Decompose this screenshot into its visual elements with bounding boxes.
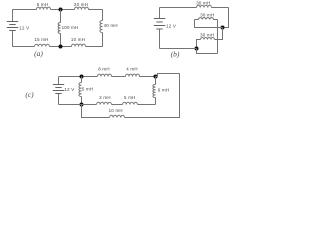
circuit (b) wires [154, 5, 229, 53]
svg-text:20 mH: 20 mH [74, 2, 88, 7]
inductor L11 4mH [126, 74, 140, 76]
svg-text:(a): (a) [34, 49, 43, 58]
node M junction [221, 26, 225, 30]
circuit (c) labels [25, 67, 169, 114]
inductor L4 10mH [72, 44, 86, 46]
svg-text:12 V: 12 V [166, 23, 176, 28]
wire right edge and bottom rail [125, 74, 180, 118]
svg-text:12 V: 12 V [19, 25, 29, 30]
inductor L10 8mH [98, 74, 112, 76]
wire loop1 coil leads [195, 19, 218, 21]
battery V2 leads [159, 8, 161, 49]
svg-text:40 mH: 40 mH [104, 23, 118, 28]
wire node M to loop2 [215, 28, 223, 40]
inductor L16 10mH [110, 115, 125, 117]
circuit (b) labels [166, 0, 214, 58]
svg-text:30 mH: 30 mH [200, 12, 214, 17]
inductor L12 5mH vertical [81, 77, 83, 105]
wire shorting bar [195, 20, 223, 28]
wire U detour [197, 49, 218, 54]
wire loop2 left side [197, 40, 201, 49]
inductor L2 20mH [75, 7, 89, 9]
node top-left junction [80, 75, 84, 79]
wire bottom rail [13, 46, 103, 48]
node top-right junction [154, 75, 158, 79]
svg-text:2 mH: 2 mH [99, 95, 111, 100]
circuit (a) wires [7, 7, 103, 48]
node bottom junction [195, 47, 199, 51]
battery V3 plates [53, 84, 64, 86]
svg-text:10 mH: 10 mH [71, 37, 85, 42]
svg-text:5 mH: 5 mH [37, 2, 49, 7]
svg-text:5 mH: 5 mH [124, 95, 136, 100]
wire middle branch [60, 10, 62, 47]
wire top rail [13, 9, 103, 11]
wire bottom rail [160, 48, 197, 50]
svg-text:30 mH: 30 mH [196, 0, 210, 5]
svg-text:5 mH: 5 mH [82, 87, 94, 92]
svg-text:8 mH: 8 mH [98, 67, 110, 72]
svg-text:15 mH: 15 mH [34, 37, 48, 42]
wire middle rail [59, 104, 156, 106]
wire top rail [160, 7, 229, 9]
battery V2 plates [154, 18, 165, 20]
inductor L5 100mH vertical [58, 23, 60, 34]
svg-text:(b): (b) [171, 50, 180, 59]
svg-text:10 mH: 10 mH [109, 108, 123, 113]
inductor L8 30mH middle [199, 18, 214, 20]
svg-text:(c): (c) [25, 90, 34, 99]
wire right edge [102, 10, 104, 47]
battery V3 leads [58, 77, 60, 105]
battery V1 leads [12, 10, 14, 47]
node middle-left junction [80, 103, 84, 107]
wire top rail [59, 76, 156, 78]
node top junction [59, 8, 63, 12]
svg-text:6 mH: 6 mH [158, 87, 170, 92]
svg-text:100 mH: 100 mH [62, 25, 79, 30]
inductor L15 6mH vertical [155, 77, 157, 105]
node bottom junction [59, 45, 63, 49]
inductor L13 2mH [97, 102, 112, 104]
wire crossing vertical [217, 20, 219, 54]
inductor L3 15mH [35, 44, 50, 46]
circuit (a) labels [19, 2, 117, 58]
wire bottom rail left [82, 105, 110, 118]
circuit (c) wires [53, 74, 180, 118]
wire right edge [223, 8, 229, 28]
battery V1 plates [7, 21, 18, 23]
svg-text:30 mH: 30 mH [200, 33, 214, 38]
svg-text:12 V: 12 V [64, 87, 74, 92]
inductor L14 5mH [123, 102, 138, 104]
inductor L7 30mH top [197, 5, 212, 7]
svg-text:4 mH: 4 mH [126, 67, 138, 72]
inductor L6 40mH vertical [100, 21, 103, 33]
inductor L1 5mH [37, 7, 51, 9]
wire jog to right edge [156, 74, 180, 77]
inductor L9 30mH bottom [201, 38, 215, 40]
